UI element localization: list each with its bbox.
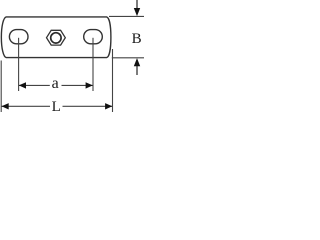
- hex nut: [47, 30, 66, 45]
- right slotted hole: [84, 30, 103, 44]
- extension line from right hole centre: [92, 38, 94, 91]
- B bottom arrowhead (up): [134, 58, 140, 66]
- arrowhead a left: [19, 82, 26, 88]
- svg-text:B: B: [132, 31, 142, 47]
- B extension line top: [109, 15, 144, 17]
- arrowhead L right: [105, 103, 112, 109]
- svg-text:a: a: [52, 75, 59, 92]
- arrowhead L left: [2, 103, 9, 109]
- B bottom arrow stem: [136, 66, 138, 76]
- dimension line L (right part): [63, 105, 113, 107]
- extension line from left hole centre: [18, 38, 20, 91]
- L extension line right: [112, 49, 114, 112]
- left slotted hole: [9, 30, 28, 44]
- clamp plate outline: [1, 17, 111, 58]
- dimension line a (left part): [19, 84, 50, 86]
- L extension line left: [0, 61, 2, 113]
- svg-text:L: L: [52, 99, 61, 115]
- arrowhead a right: [86, 82, 93, 88]
- nut bore circle: [51, 33, 61, 43]
- dimension line L (left part): [1, 105, 50, 107]
- B top arrowhead (down): [134, 8, 140, 16]
- dimension line a (right part): [62, 84, 93, 86]
- B top arrow stem: [136, 0, 138, 9]
- B extension line bottom: [112, 57, 144, 59]
